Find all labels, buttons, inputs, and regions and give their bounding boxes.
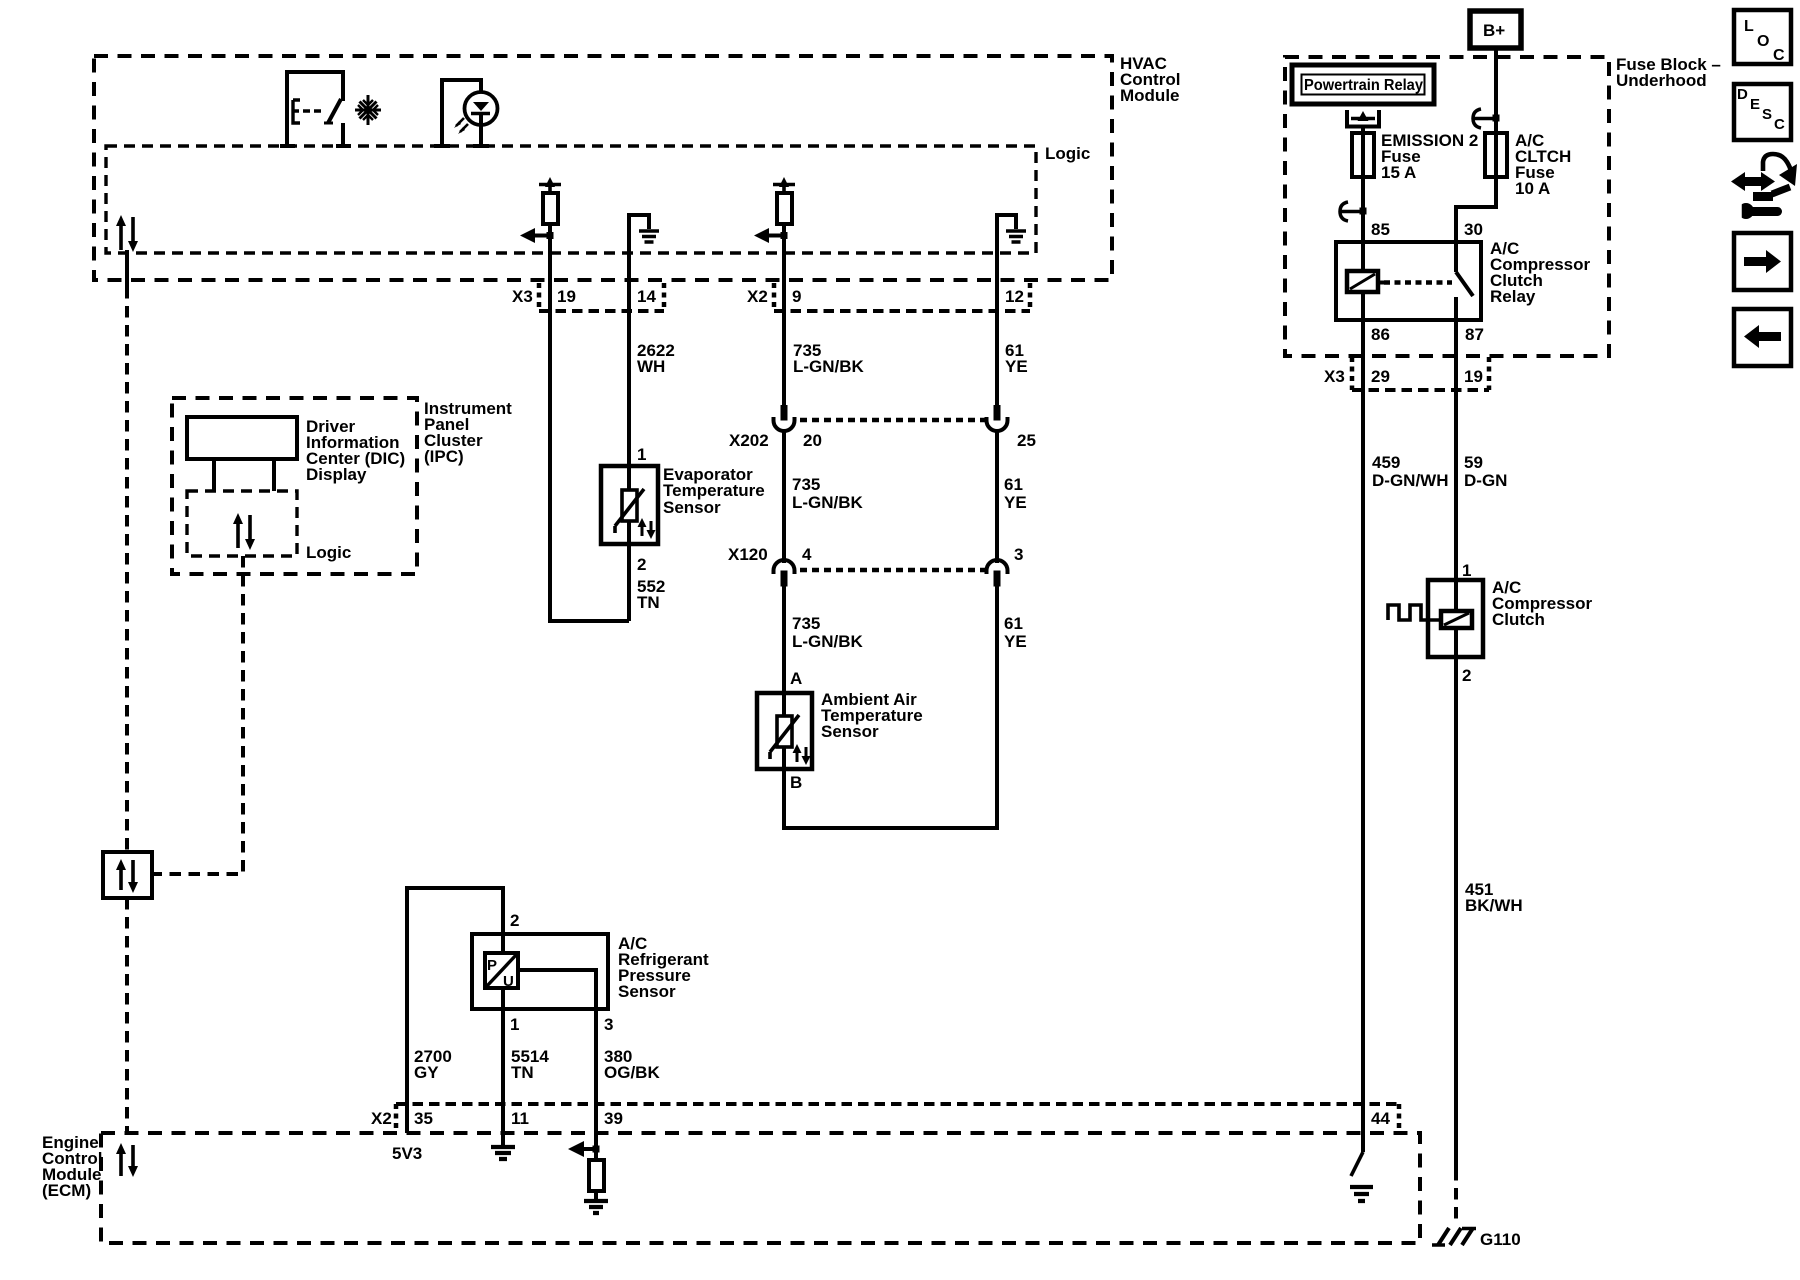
ECM connector X2 pin row xyxy=(371,1104,1399,1130)
pin 2 label and wire 552 TN xyxy=(629,544,665,621)
svg-text:30: 30 xyxy=(1464,220,1483,239)
svg-text:G110: G110 xyxy=(1480,1230,1521,1249)
svg-text:X202: X202 xyxy=(729,431,769,450)
svg-text:Powertrain Relay: Powertrain Relay xyxy=(1304,77,1423,94)
wire: pin 19 internal xyxy=(550,224,629,621)
wire: B+ to A/C CLTCH fuse xyxy=(1494,48,1498,133)
svg-text:X2: X2 xyxy=(371,1109,392,1128)
wire: dashed drop to G110 xyxy=(1454,1169,1458,1226)
svg-text:D-GN/WH: D-GN/WH xyxy=(1372,471,1448,490)
A/C Compressor Clutch Relay box xyxy=(1336,239,1591,320)
svg-text:L-GN/BK: L-GN/BK xyxy=(792,632,864,651)
resistor inside ECM (pin 39 pull-down) xyxy=(589,1149,604,1199)
svg-text:E: E xyxy=(1750,96,1760,113)
wire 459 D-GN/WH (pin 29 to ECM pin 44) xyxy=(1363,320,1448,1133)
svg-text:L-GN/BK: L-GN/BK xyxy=(793,357,865,376)
relay actuating dashed link xyxy=(1384,280,1452,285)
in-line connector X120 pin 3 xyxy=(987,545,1024,587)
B+ battery feed box xyxy=(1470,11,1521,48)
svg-text:25: 25 xyxy=(1017,431,1036,450)
HVAC connector X2 pin row xyxy=(747,283,1030,311)
ground symbol inside HVAC (pin 14) xyxy=(629,215,659,242)
svg-text:61: 61 xyxy=(1004,475,1023,494)
svg-text:39: 39 xyxy=(604,1109,623,1128)
svg-text:B: B xyxy=(790,773,802,792)
svg-text:459: 459 xyxy=(1372,453,1400,472)
svg-text:O: O xyxy=(1757,33,1769,50)
svg-text:(ECM): (ECM) xyxy=(42,1181,91,1200)
svg-text:D: D xyxy=(1737,86,1748,103)
ambient air temperature sensor xyxy=(757,690,923,769)
svg-text:L: L xyxy=(1744,18,1754,35)
Driver Information Center (DIC) display xyxy=(187,417,405,491)
svg-text:1: 1 xyxy=(1462,561,1471,580)
svg-text:1: 1 xyxy=(637,445,646,464)
svg-text:X2: X2 xyxy=(747,287,768,306)
wire: relay output to EMISSION 2 fuse xyxy=(1361,128,1365,133)
svg-text:S: S xyxy=(1762,106,1772,123)
wire: sensor pin B loop to 61 YE xyxy=(784,769,999,828)
serial data communication node box xyxy=(103,852,152,898)
IPC Logic box xyxy=(187,491,351,562)
ground G110 (chassis) xyxy=(1432,1228,1521,1249)
svg-text:Display: Display xyxy=(306,465,367,484)
wire 735 L-GN/BK (pin 9 to X202) xyxy=(793,341,865,376)
forward hotlink icon xyxy=(1734,233,1791,290)
evaporator temperature sensor xyxy=(601,465,765,544)
svg-text:3: 3 xyxy=(1014,545,1023,564)
Powertrain Relay label box xyxy=(1292,65,1434,104)
DESC hotlink icon xyxy=(1734,84,1791,140)
svg-text:Underhood: Underhood xyxy=(1616,71,1707,90)
diagnostic jump icon (arrows and wrench) xyxy=(1731,154,1797,219)
wire: HVAC serial data (solid then dashed) xyxy=(125,250,129,852)
wire 2622 WH (pin 14 to evaporator sensor pin 1) xyxy=(637,341,675,376)
svg-text:12: 12 xyxy=(1005,287,1024,306)
display backlight LED icon xyxy=(434,80,498,146)
wire 61 YE (X202 to X120) xyxy=(997,431,1027,563)
svg-text:YE: YE xyxy=(1004,493,1027,512)
pin 86 / 87 labels xyxy=(1371,325,1484,344)
A/C CLTCH fuse 10 A xyxy=(1485,131,1571,198)
wire 2700 GY (pin 35 to sensor pin 2) xyxy=(407,888,503,1133)
LOC hotlink icon xyxy=(1734,10,1791,64)
wire: ECM pin 44 internal switch xyxy=(1351,1133,1363,1176)
wire: IPC serial data (dashed) xyxy=(152,556,243,874)
svg-text:Sensor: Sensor xyxy=(618,982,676,1001)
wire 735 L-GN/BK (X202 to X120) xyxy=(784,431,864,563)
wire 59 D-GN (pin 19 to clutch pin 1) xyxy=(1456,320,1507,580)
svg-text:Clutch: Clutch xyxy=(1492,610,1545,629)
clutch mechanical linkage symbol xyxy=(1388,605,1441,620)
svg-text:44: 44 xyxy=(1371,1109,1390,1128)
signal arrow inside ECM (pin 39) xyxy=(568,1141,600,1157)
A/C Compressor Clutch xyxy=(1428,578,1593,657)
HVAC Logic box xyxy=(106,144,1090,253)
in-line connector X120 pin 4 xyxy=(728,545,812,587)
svg-text:TN: TN xyxy=(637,593,660,612)
relay switch (30 to 87) xyxy=(1456,242,1473,320)
svg-text:YE: YE xyxy=(1005,357,1028,376)
svg-text:87: 87 xyxy=(1465,325,1484,344)
in-line connector X202 pin 25 xyxy=(987,405,1036,450)
HVAC Control Module box xyxy=(94,54,1180,280)
fuse block connector X3 pin row xyxy=(1324,357,1489,390)
svg-text:5V3: 5V3 xyxy=(392,1144,422,1163)
wire: relay pin 86 down xyxy=(1361,292,1365,320)
svg-text:X120: X120 xyxy=(728,545,768,564)
svg-text:2: 2 xyxy=(637,555,646,574)
IPC logic serial-data arrows xyxy=(233,513,255,550)
svg-text:10 A: 10 A xyxy=(1515,179,1550,198)
A/C request switch icon xyxy=(280,72,351,148)
svg-text:735: 735 xyxy=(792,614,820,633)
svg-text:Logic: Logic xyxy=(1045,144,1090,163)
svg-text:WH: WH xyxy=(637,357,665,376)
svg-text:Module: Module xyxy=(1120,86,1180,105)
svg-text:P: P xyxy=(487,957,497,974)
svg-text:(IPC): (IPC) xyxy=(424,447,464,466)
svg-text:4: 4 xyxy=(802,545,812,564)
svg-text:OG/BK: OG/BK xyxy=(604,1063,660,1082)
HVAC logic serial-data arrows xyxy=(116,215,138,252)
svg-text:Logic: Logic xyxy=(306,543,351,562)
backward hotlink icon xyxy=(1734,309,1791,366)
wire 61 YE (pin 12 to X202) xyxy=(1005,341,1028,376)
svg-text:59: 59 xyxy=(1464,453,1483,472)
wire 380 OG/BK (sensor pin 3 to ECM pin 39) xyxy=(596,1009,660,1149)
svg-text:X3: X3 xyxy=(512,287,533,306)
svg-text:C: C xyxy=(1773,47,1785,64)
svg-text:Sensor: Sensor xyxy=(821,722,879,741)
ground symbol inside ECM (pin 11) xyxy=(491,1147,515,1159)
Instrument Panel Cluster (IPC) box xyxy=(172,398,512,574)
powertrain relay output symbol xyxy=(1347,110,1379,127)
svg-text:86: 86 xyxy=(1371,325,1390,344)
svg-text:15 A: 15 A xyxy=(1381,163,1416,182)
svg-text:61: 61 xyxy=(1004,614,1023,633)
ground symbol inside HVAC (pin 12) xyxy=(997,215,1026,242)
svg-text:YE: YE xyxy=(1004,632,1027,651)
svg-text:1: 1 xyxy=(510,1015,519,1034)
svg-text:L-GN/BK: L-GN/BK xyxy=(792,493,864,512)
EMISSION 2 fuse 15 A xyxy=(1352,131,1478,182)
signal arrow to logic (pin 9) xyxy=(754,228,788,243)
svg-text:19: 19 xyxy=(1464,367,1483,386)
svg-text:A: A xyxy=(790,669,802,688)
Engine Control Module (ECM) box xyxy=(42,1133,1420,1243)
svg-text:20: 20 xyxy=(803,431,822,450)
wire 735 L-GN/BK (X120 to ambient sensor pin A) xyxy=(784,586,864,693)
in-line lead symbol (85 branch) xyxy=(1340,202,1367,221)
svg-text:3: 3 xyxy=(604,1015,613,1034)
svg-text:Sensor: Sensor xyxy=(663,498,721,517)
svg-text:9: 9 xyxy=(792,287,801,306)
svg-text:85: 85 xyxy=(1371,220,1390,239)
relay coil xyxy=(1347,242,1384,292)
X202 harness dashed jumper xyxy=(800,418,988,423)
svg-text:Relay: Relay xyxy=(1490,287,1536,306)
svg-text:C: C xyxy=(1774,116,1785,133)
ECM serial-data arrows xyxy=(116,1143,138,1177)
svg-text:19: 19 xyxy=(557,287,576,306)
svg-text:2: 2 xyxy=(510,911,519,930)
pull-up resistor on pin 19 circuit xyxy=(539,177,561,224)
svg-text:2: 2 xyxy=(1462,666,1471,685)
A/C refrigerant pressure sensor xyxy=(472,934,709,1009)
svg-text:D-GN: D-GN xyxy=(1464,471,1507,490)
wire 451 BK/WH (clutch pin 2 to G110) xyxy=(1456,657,1523,1169)
Fuse Block - Underhood box xyxy=(1285,55,1721,356)
snowflake (A/C) icon xyxy=(355,95,381,125)
wire 61 YE (X120 pin 3 down) xyxy=(997,586,1027,828)
svg-text:TN: TN xyxy=(511,1063,534,1082)
svg-text:29: 29 xyxy=(1371,367,1390,386)
svg-text:U: U xyxy=(503,973,514,990)
in-line lead symbol (B+ branch) xyxy=(1473,109,1500,128)
ground symbol inside ECM (below resistor) xyxy=(584,1201,608,1213)
svg-text:11: 11 xyxy=(511,1109,529,1128)
wire: serial data to ECM (dashed) xyxy=(125,898,129,1133)
svg-text:14: 14 xyxy=(637,287,656,306)
signal arrow to logic (pin 19) xyxy=(520,228,554,243)
wire: pin 14 internal xyxy=(627,213,631,466)
HVAC connector X3 pin row xyxy=(512,283,664,311)
wire: pin 9 internal xyxy=(782,224,786,406)
svg-text:35: 35 xyxy=(414,1109,433,1128)
in-line connector X202 pin 20 xyxy=(729,405,822,450)
wire: pin 12 internal xyxy=(995,213,999,406)
svg-text:735: 735 xyxy=(792,475,820,494)
svg-text:BK/WH: BK/WH xyxy=(1465,896,1523,915)
svg-text:X3: X3 xyxy=(1324,367,1345,386)
wire 5514 TN (sensor pin 1 to ECM pin 11) xyxy=(503,1009,549,1146)
svg-text:GY: GY xyxy=(414,1063,439,1082)
X120 harness dashed jumper xyxy=(800,568,988,573)
pull-up resistor on pin 9 circuit xyxy=(773,177,795,224)
wire: fuse to relay pin 85 xyxy=(1361,177,1365,242)
svg-text:B+: B+ xyxy=(1483,21,1505,40)
ground symbol inside ECM (pin 44) xyxy=(1350,1187,1373,1201)
pin 1 / pin 3 labels xyxy=(510,1015,613,1034)
wire: fuse to relay pin 30 xyxy=(1456,177,1496,242)
